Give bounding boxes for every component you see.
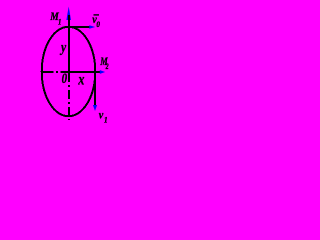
x-axis blue arrowhead: [100, 70, 105, 74]
wire: x-axis dash-dot left portion: [42, 71, 69, 73]
circle trajectory diagram with velocity vectors: [0, 0, 147, 140]
svg-text:y: y: [59, 39, 66, 56]
y-axis shaft core over arrowhead: [68, 15, 70, 21]
wire: x-axis solid right shaft: [68, 71, 101, 73]
y-axis blue arrowhead: [66, 7, 71, 21]
v0 blue arrowhead: [89, 25, 95, 29]
svg-text:0: 0: [62, 71, 68, 87]
v1 blue arrowhead: [93, 105, 97, 111]
overbar of v0: [94, 14, 100, 15]
ellipse trajectory: [42, 27, 96, 117]
wire: y-axis dash-dot lower portion: [68, 73, 70, 120]
wire: y-axis solid upper shaft: [68, 14, 70, 73]
svg-text:x: x: [77, 71, 84, 89]
vector v1 shaft at right of circle: [94, 73, 96, 106]
vector v0 shaft at top of circle: [70, 26, 91, 28]
